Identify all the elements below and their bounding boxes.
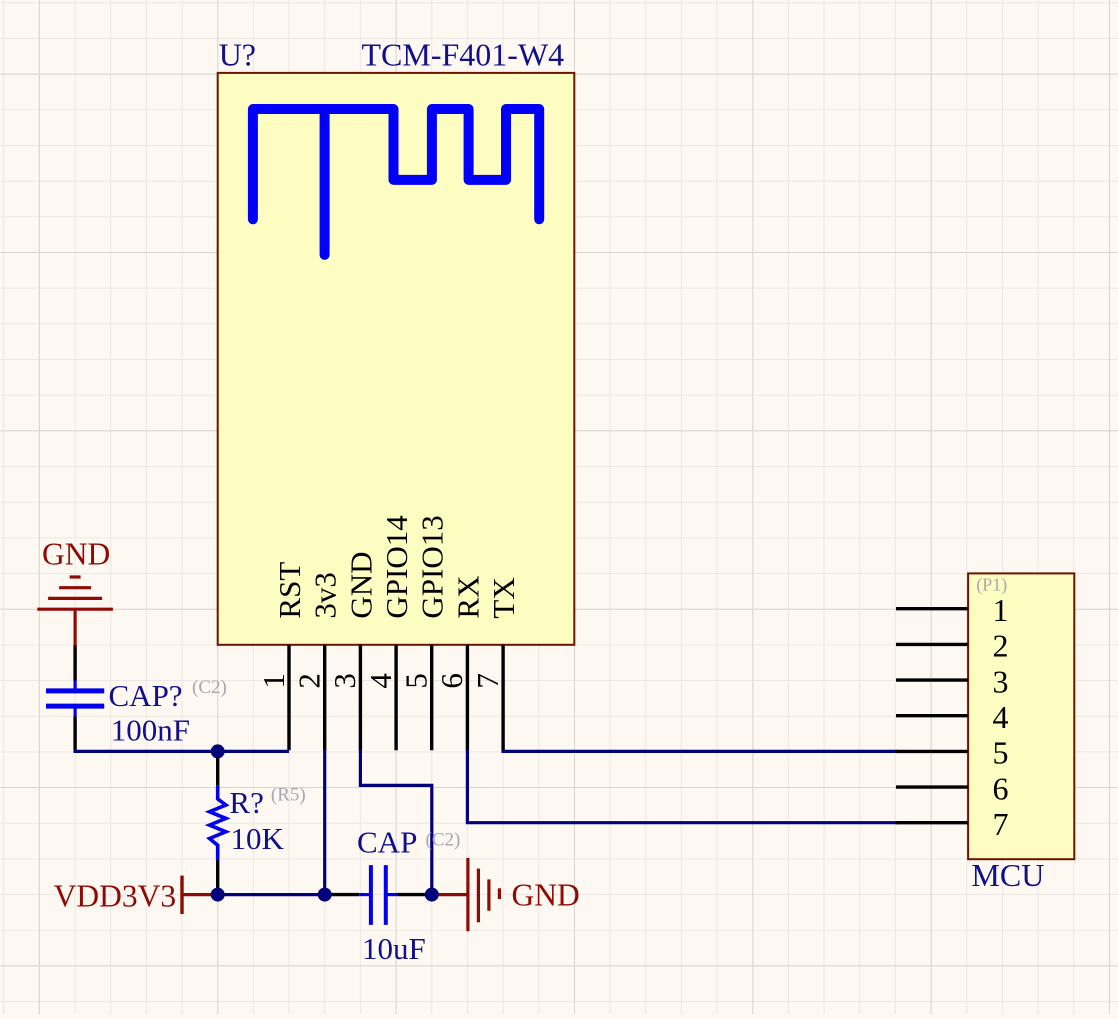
- svg-text:3: 3: [993, 663, 1009, 699]
- power port VDD3V3: [182, 876, 218, 914]
- svg-text:GND: GND: [512, 878, 580, 913]
- svg-text:2: 2: [292, 673, 327, 689]
- pin 5 of P1: [896, 735, 1009, 771]
- connector P1 MCU body: [968, 573, 1074, 859]
- svg-text:CAP?: CAP?: [109, 678, 183, 713]
- svg-text:GPIO14: GPIO14: [379, 515, 414, 619]
- pin 1 of P1: [896, 592, 1009, 628]
- svg-text:(C2): (C2): [426, 830, 461, 851]
- svg-text:100nF: 100nF: [111, 713, 190, 748]
- junction node: [318, 888, 332, 902]
- svg-text:5: 5: [993, 735, 1009, 771]
- svg-text:RX: RX: [450, 576, 485, 619]
- svg-text:5: 5: [399, 673, 434, 689]
- pin 4 of P1: [896, 699, 1009, 735]
- svg-text:6: 6: [993, 770, 1009, 806]
- pin 2 of P1: [896, 628, 1009, 664]
- module U? TCM-F401-W4 body: [218, 73, 575, 645]
- svg-text:7: 7: [470, 673, 505, 689]
- svg-text:CAP: CAP: [357, 825, 417, 860]
- wire net RST horizontal: [75, 749, 289, 751]
- ground symbol GND (right): [432, 858, 499, 931]
- pin 3 (GND) of U?: [327, 551, 378, 750]
- svg-text:(R5): (R5): [271, 785, 306, 806]
- svg-text:6: 6: [434, 673, 469, 689]
- wire VDD bus: [218, 893, 326, 896]
- pin 2 (3v3) of U?: [292, 572, 343, 750]
- wire RX pin6 to MCU pin7: [467, 749, 897, 822]
- svg-text:2: 2: [993, 628, 1009, 664]
- wire GND pin3 to cap junction: [360, 749, 431, 894]
- ground symbol GND (left): [37, 577, 113, 646]
- junction node: [211, 888, 225, 902]
- svg-text:3v3: 3v3: [308, 572, 343, 619]
- svg-text:GND: GND: [343, 551, 378, 618]
- svg-text:7: 7: [993, 806, 1009, 842]
- svg-text:GND: GND: [42, 537, 110, 572]
- svg-text:MCU: MCU: [971, 857, 1044, 893]
- svg-text:10K: 10K: [231, 821, 285, 856]
- svg-text:1: 1: [256, 673, 291, 689]
- resistor R? 10K: [210, 751, 226, 894]
- svg-text:RST: RST: [272, 562, 307, 619]
- wire TX pin7 to MCU pin5: [503, 749, 897, 751]
- svg-text:U?: U?: [219, 37, 256, 73]
- pin 6 of P1: [896, 770, 1009, 806]
- pin 7 (TX) of U?: [470, 577, 521, 750]
- capacitor CAP? 100nF: [46, 646, 104, 750]
- pin 5 (GPIO13) of U?: [399, 515, 450, 750]
- svg-text:VDD3V3: VDD3V3: [54, 878, 177, 913]
- pin 3 of P1: [896, 663, 1009, 699]
- pin 6 (RX) of U?: [434, 576, 485, 751]
- capacitor CAP 10uF: [326, 865, 432, 925]
- antenna trace graphic: [253, 109, 539, 255]
- svg-text:3: 3: [327, 673, 362, 689]
- svg-text:4: 4: [363, 673, 398, 689]
- svg-text:R?: R?: [229, 785, 263, 820]
- pin 1 (RST) of U?: [256, 562, 307, 751]
- pin 7 of P1: [896, 806, 1009, 842]
- svg-text:1: 1: [993, 592, 1009, 628]
- svg-text:TX: TX: [486, 577, 521, 618]
- svg-text:(C2): (C2): [192, 677, 227, 698]
- wire 3v3 pin2 down: [323, 749, 326, 894]
- svg-text:10uF: 10uF: [362, 931, 426, 966]
- pin 4 (GPIO14) of U?: [363, 515, 414, 750]
- svg-text:4: 4: [993, 699, 1009, 735]
- junction node: [425, 888, 439, 902]
- svg-text:TCM-F401-W4: TCM-F401-W4: [362, 37, 565, 73]
- junction node: [211, 744, 225, 758]
- svg-text:GPIO13: GPIO13: [415, 515, 450, 618]
